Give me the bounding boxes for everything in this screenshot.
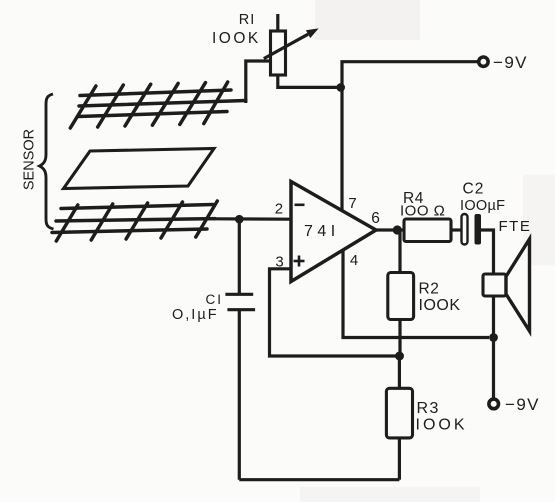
- svg-text:C2: C2: [463, 181, 485, 198]
- wire: op-amp output pin 6: [376, 228, 394, 231]
- svg-text:SENSOR: SENSOR: [22, 129, 38, 190]
- wire: top sensor grid to R1 left terminal: [246, 61, 271, 103]
- svg-text:IOOK: IOOK: [416, 417, 468, 434]
- svg-text:IOOK: IOOK: [419, 297, 461, 314]
- node: output junction: [393, 225, 402, 234]
- op-amp U1 741: [291, 182, 376, 282]
- wire: -9V top rail and op-amp pin 7: [342, 62, 478, 211]
- svg-text:74I: 74I: [304, 223, 340, 240]
- sensor middle plate: [64, 149, 215, 189]
- svg-text:2: 2: [275, 201, 283, 218]
- sensor bottom grid: [52, 201, 217, 241]
- potentiometer R1: [264, 14, 319, 75]
- resistor R3: [386, 358, 412, 480]
- svg-text:IOOK: IOOK: [212, 30, 261, 47]
- svg-text:−9V: −9V: [493, 53, 528, 72]
- svg-text:FTE: FTE: [499, 218, 532, 235]
- sensor brace: [40, 94, 54, 229]
- speaker FTE: [483, 239, 530, 331]
- terminal -9V top: [479, 57, 488, 66]
- svg-text:CI: CI: [206, 292, 224, 307]
- svg-text:IOOµF: IOOµF: [460, 198, 505, 214]
- node: speaker / pin4 / -9V junction: [489, 333, 498, 342]
- svg-text:O,IµF: O,IµF: [172, 307, 219, 323]
- capacitor C2: [462, 214, 482, 245]
- wire: op-amp pin 4 to speaker bottom: [343, 250, 489, 338]
- wire: C2 to speaker: [481, 230, 494, 274]
- svg-text:6: 6: [371, 210, 380, 227]
- svg-text:4: 4: [350, 252, 358, 269]
- svg-text:−9V: −9V: [505, 395, 540, 414]
- wire: R1 bottom to -9V node: [278, 75, 339, 87]
- wire: speaker bottom to -9V: [492, 296, 495, 399]
- node: R1 / -9V rail junction: [336, 83, 345, 92]
- node: pin2 / C1 junction: [235, 215, 244, 224]
- wire: sensor bottom grid to op-amp pin 2: [213, 217, 291, 221]
- svg-text:7: 7: [348, 195, 356, 212]
- capacitor C1: [225, 219, 255, 480]
- sensor top grid: [70, 82, 246, 128]
- wire: op-amp pin 3 feedback: [270, 269, 397, 356]
- resistor R2: [388, 232, 414, 353]
- resistor R4: [397, 219, 462, 242]
- svg-text:RI: RI: [239, 12, 256, 28]
- wire: bottom rail: [239, 478, 399, 481]
- svg-text:R2: R2: [419, 281, 440, 298]
- svg-text:IOO Ω: IOO Ω: [400, 203, 445, 220]
- node: feedback / R2 / R3 junction: [395, 352, 404, 361]
- terminal -9V bottom: [489, 399, 499, 409]
- svg-text:R3: R3: [417, 400, 440, 417]
